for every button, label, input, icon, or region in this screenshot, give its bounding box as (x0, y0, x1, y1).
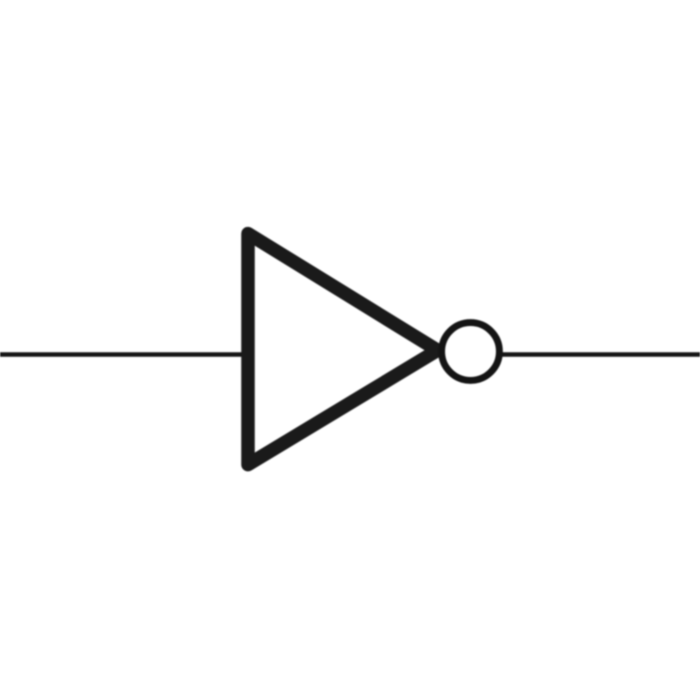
inversion bubble (442, 323, 500, 381)
wire: output (right) (499, 352, 700, 356)
wire: input (left) (0, 352, 248, 356)
inverter U1 triangle (248, 234, 438, 465)
